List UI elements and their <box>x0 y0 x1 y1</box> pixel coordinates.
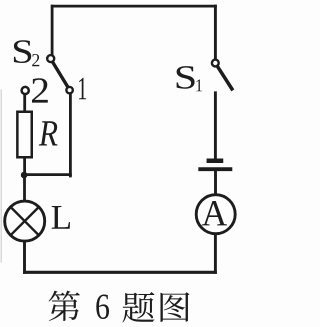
wire: top-left vertical down to switch S2 pivot <box>51 6 54 54</box>
lamp L body <box>5 201 45 241</box>
wire: junction down to lamp <box>23 175 26 201</box>
switch S1 pivot terminal <box>212 60 219 67</box>
switch S2 blade (thrown to contact 1) <box>53 63 68 87</box>
label A ammeter <box>202 201 227 225</box>
wire: bottom-right vertical up to ammeter <box>214 233 217 272</box>
wire: ammeter up to battery <box>214 171 217 195</box>
wire: resistor bottom lead down to junction <box>23 158 26 175</box>
label contact 1 <box>79 78 86 99</box>
switch S2 pivot terminal <box>47 55 54 62</box>
switch S2 contact terminal 1 <box>66 87 72 93</box>
switch S1 blade (open) <box>218 67 232 89</box>
junction node dot <box>21 172 28 179</box>
wire: top horizontal rail <box>52 5 215 8</box>
wire: bottom horizontal rail <box>25 271 216 274</box>
label S1 subscript 1 <box>196 79 202 91</box>
caption character ti (题) <box>122 292 154 322</box>
caption character tu (图) <box>161 292 190 321</box>
wire: horizontal connector from junction to contact-1 branch <box>25 173 70 176</box>
label S2 subscript 2 <box>32 54 39 66</box>
switch S2 contact terminal 2 <box>22 87 29 94</box>
label S2 letter S <box>14 40 31 63</box>
label L lamp <box>52 206 70 229</box>
caption numeral 6 <box>96 294 109 319</box>
wire: contact 2 down to resistor <box>23 95 26 112</box>
label contact 2 <box>32 78 48 102</box>
label R resistor <box>39 121 58 145</box>
wire: lamp down to bottom rail <box>23 242 26 273</box>
lamp L cross stroke (down-right) <box>11 207 39 235</box>
battery plate: long thin (positive) <box>200 167 230 171</box>
wire: top-right vertical down to switch S1 pivot <box>214 6 217 58</box>
wire: contact 1 branch down to connector <box>69 94 72 176</box>
caption character di (第) <box>49 291 80 321</box>
wire: battery up to S1 lower terminal <box>214 93 217 159</box>
resistor R body <box>17 112 31 158</box>
battery plate: short thick (negative) <box>209 159 221 164</box>
label S1 letter S <box>177 66 195 89</box>
lamp L cross stroke (up-right) <box>11 207 39 235</box>
ammeter A body <box>196 195 235 234</box>
